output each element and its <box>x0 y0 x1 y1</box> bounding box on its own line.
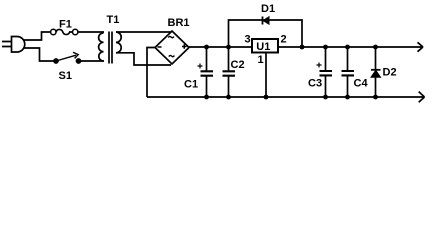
wire plug top to fuse <box>23 32 50 40</box>
wire switch to transformer primary bottom <box>81 60 105 62</box>
fuse F1 <box>51 29 78 34</box>
primary coil <box>99 33 104 61</box>
svg-text:S1: S1 <box>59 70 72 82</box>
~ mark top <box>168 36 174 37</box>
U1 pin1 wire to ground rail <box>265 53 267 98</box>
junction dots ground rail <box>204 95 378 100</box>
~ mark bottom <box>169 55 175 56</box>
svg-text:F1: F1 <box>59 19 72 31</box>
secondary coil <box>116 32 121 53</box>
regulator U1 box <box>252 39 278 53</box>
bridge rectifier BR1 <box>155 31 189 64</box>
junction dots top rail <box>204 45 378 50</box>
wire plug bottom to switch <box>23 48 54 61</box>
transformer T1 <box>99 32 122 64</box>
capacitor C1 <box>198 47 214 97</box>
diode D1 <box>263 17 270 25</box>
minus mark <box>158 46 162 48</box>
wire bridge minus down to ground rail <box>147 48 155 98</box>
AC plug <box>2 37 25 53</box>
svg-text:1: 1 <box>258 54 264 66</box>
svg-text:U1: U1 <box>256 41 270 53</box>
ground rail with output arrow <box>147 92 425 103</box>
capacitor C4 <box>342 47 355 97</box>
wire fuse to transformer primary top <box>78 31 104 33</box>
svg-text:BR1: BR1 <box>168 17 190 29</box>
wire secondary top to bridge AC1 <box>116 31 171 33</box>
DC+ rail right of U1 with output arrow <box>278 42 423 51</box>
svg-text:D1: D1 <box>261 3 275 15</box>
wire secondary bottom to bridge AC2 <box>116 53 171 65</box>
core <box>109 32 112 64</box>
wire bridge plus to U1 pin 3 (DC+ rail left) <box>189 46 252 49</box>
svg-text:C3: C3 <box>308 78 322 90</box>
switch S1 <box>54 52 81 63</box>
svg-text:T1: T1 <box>107 14 120 26</box>
svg-text:C4: C4 <box>354 78 369 90</box>
diode D2 <box>371 47 381 97</box>
plus mark <box>182 44 187 49</box>
capacitor C3 <box>317 47 333 97</box>
svg-text:C2: C2 <box>231 59 245 71</box>
svg-text:3: 3 <box>245 34 251 46</box>
D1 bypass wires <box>229 20 303 47</box>
capacitor C2 <box>223 47 236 97</box>
svg-text:D2: D2 <box>383 67 397 79</box>
svg-text:C1: C1 <box>184 79 198 91</box>
svg-text:2: 2 <box>281 34 287 46</box>
